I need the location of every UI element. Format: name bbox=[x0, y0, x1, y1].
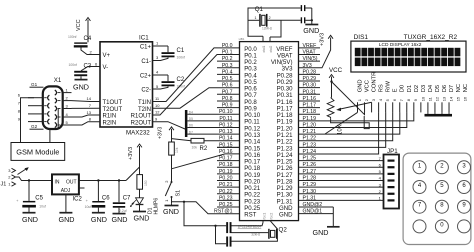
svg-text:2: 2 bbox=[379, 189, 382, 194]
svg-text:5: 5 bbox=[156, 84, 159, 89]
capacitor C4 bbox=[68, 35, 92, 47]
wire X1 pin3 to T2OUT pin 7 bbox=[72, 103, 101, 108]
svg-text:10uf: 10uf bbox=[39, 205, 46, 209]
op-amp IC1 MAX232 body bbox=[100, 35, 153, 137]
X1 right pins 1-5 bbox=[55, 87, 72, 127]
svg-text:C1+: C1+ bbox=[140, 45, 152, 51]
wire J1 pin2 to IC2 IN rail bbox=[16, 177, 53, 181]
wire GND pins to ground bbox=[299, 207, 334, 227]
wire V- pin 6 to C3 bbox=[81, 62, 100, 71]
svg-text:D1: D1 bbox=[407, 85, 413, 92]
wire VREF stub bbox=[299, 47, 321, 49]
svg-text:5: 5 bbox=[66, 120, 69, 125]
capacitor rtxc2 to GND bbox=[226, 237, 231, 247]
wire X1 pin4 to R1IN pin 13 bbox=[72, 110, 101, 117]
svg-text:D5: D5 bbox=[189, 117, 193, 121]
wire GSM to X1 pin6 bbox=[21, 98, 35, 143]
svg-text:GND: GND bbox=[112, 215, 128, 224]
svg-text:LPC2148FBD64: LPC2148FBD64 bbox=[238, 224, 261, 228]
connector J1 bbox=[1, 168, 16, 187]
svg-text:GND: GND bbox=[313, 228, 329, 237]
svg-text:LCD DISPLAY 16x2: LCD DISPLAY 16x2 bbox=[379, 42, 422, 48]
capacitor top (xtal1 to GND) bbox=[301, 5, 312, 11]
svg-text:+: + bbox=[16, 198, 19, 203]
wire rtxc2 to crystal bbox=[232, 221, 278, 242]
svg-text:1: 1 bbox=[164, 199, 169, 202]
svg-text:3: 3 bbox=[156, 55, 159, 60]
wire ground rail to crystal caps bbox=[184, 202, 226, 244]
wire P1.22 to LCD E bbox=[299, 112, 393, 140]
svg-text:T1OUT: T1OUT bbox=[103, 100, 123, 106]
svg-text:OUT: OUT bbox=[66, 179, 77, 185]
power symbol +3V3 near S1 bbox=[158, 127, 174, 142]
svg-text:1: 1 bbox=[255, 16, 257, 20]
ground below C3 bbox=[73, 76, 89, 91]
svg-text:+3V3: +3V3 bbox=[128, 147, 134, 160]
svg-text:0: 0 bbox=[440, 222, 444, 228]
svg-text:4: 4 bbox=[418, 183, 422, 189]
svg-text:GND: GND bbox=[73, 83, 89, 92]
svg-text:15: 15 bbox=[455, 96, 460, 101]
LED D1 HLMP6 bbox=[130, 198, 159, 215]
svg-text:rtxc1: rtxc1 bbox=[262, 212, 266, 219]
svg-text:10uf: 10uf bbox=[85, 205, 92, 209]
wire S1 junction to P0.16 bbox=[172, 154, 240, 169]
svg-text:1: 1 bbox=[8, 182, 11, 187]
LCD display DIS1 TUXGR_16X2_R2 bbox=[351, 34, 466, 72]
power symbol +3V3 above LED resistor bbox=[126, 144, 142, 181]
wires P1.25-P1.31 to JP1 bbox=[299, 161, 384, 201]
svg-text:C2-: C2- bbox=[141, 88, 151, 94]
svg-text:Q1: Q1 bbox=[255, 6, 264, 13]
capacitor C3 bbox=[69, 63, 92, 76]
wire X1 pin5 to R2IN pin 8 bbox=[72, 117, 101, 126]
svg-text:T1IN: T1IN bbox=[138, 100, 151, 106]
svg-text:R/W: R/W bbox=[386, 81, 392, 93]
wire VBAT stub bbox=[299, 54, 321, 56]
voltage regulator IC2 bbox=[52, 174, 85, 202]
wire S1 to RST bbox=[172, 201, 240, 214]
svg-text:10: 10 bbox=[420, 96, 425, 101]
svg-text:12: 12 bbox=[434, 96, 439, 101]
svg-text:4: 4 bbox=[66, 112, 69, 117]
wire stub P0.15 bbox=[217, 146, 240, 148]
microcontroller U1 LPC2148 body bbox=[238, 42, 299, 229]
ground below S1 bbox=[163, 203, 179, 216]
svg-text:E: E bbox=[393, 88, 399, 92]
svg-text:D6: D6 bbox=[442, 85, 448, 92]
wire R2OUT pin 9 bbox=[153, 116, 187, 129]
svg-text:C5: C5 bbox=[35, 195, 43, 201]
svg-text:C1-: C1- bbox=[141, 59, 151, 65]
svg-text:2: 2 bbox=[164, 180, 169, 183]
svg-text:5: 5 bbox=[379, 169, 382, 174]
svg-text:R1OUT: R1OUT bbox=[131, 114, 152, 120]
LCD pin labels and stubs bbox=[357, 72, 469, 113]
resistor R2 10k bbox=[191, 138, 208, 152]
svg-text:7: 7 bbox=[418, 203, 422, 209]
svg-text:3: 3 bbox=[8, 168, 11, 173]
wire C4 to V+ pin 2 bbox=[81, 48, 100, 55]
svg-text:2.2uf: 2.2uf bbox=[119, 209, 127, 213]
svg-text:GND: GND bbox=[91, 215, 107, 224]
svg-text:CONTR: CONTR bbox=[372, 72, 378, 93]
wire xtal1 loop bbox=[239, 8, 301, 41]
svg-text:P0.16: P0.16 bbox=[219, 149, 233, 155]
svg-text:8: 8 bbox=[440, 203, 444, 209]
svg-text:1: 1 bbox=[357, 98, 362, 101]
svg-text:3: 3 bbox=[462, 163, 466, 169]
svg-text:GND: GND bbox=[163, 207, 179, 216]
svg-text:9: 9 bbox=[155, 116, 158, 121]
svg-text:D7: D7 bbox=[449, 85, 455, 92]
svg-text:7: 7 bbox=[89, 103, 92, 108]
svg-text:NC: NC bbox=[456, 84, 462, 92]
svg-text:5: 5 bbox=[440, 183, 444, 189]
ground below LED D1 bbox=[133, 205, 149, 223]
svg-text:6: 6 bbox=[462, 183, 466, 189]
wire P1.21 to LCD D0 bbox=[299, 112, 400, 134]
switch S1 bbox=[164, 169, 182, 204]
svg-text:VCC: VCC bbox=[329, 67, 343, 74]
svg-text:3: 3 bbox=[371, 98, 376, 101]
svg-text:13: 13 bbox=[441, 96, 446, 101]
svg-text:11: 11 bbox=[155, 96, 160, 101]
svg-text:5: 5 bbox=[385, 98, 390, 101]
svg-text:X1: X1 bbox=[54, 77, 62, 84]
U1 xtal pins bbox=[262, 36, 273, 52]
svg-text:P0.14: P0.14 bbox=[219, 136, 233, 142]
svg-text:D6: D6 bbox=[189, 124, 193, 128]
svg-text:10k: 10k bbox=[175, 147, 179, 153]
svg-text:R2IN: R2IN bbox=[103, 120, 117, 126]
ground below C7 bbox=[112, 208, 128, 224]
svg-text:1: 1 bbox=[66, 87, 69, 92]
svg-text:S1: S1 bbox=[176, 190, 182, 197]
wire pot wiper to LCD CONTR bbox=[336, 102, 371, 111]
svg-text:GSM Module: GSM Module bbox=[16, 147, 59, 156]
svg-text:R1IN: R1IN bbox=[103, 114, 117, 120]
capacitor C2 bbox=[153, 70, 186, 89]
U1 right net labels bbox=[303, 43, 323, 215]
svg-text:IN: IN bbox=[55, 179, 60, 185]
svg-text:P0.1: P0.1 bbox=[222, 50, 233, 56]
svg-text:100nf: 100nf bbox=[68, 35, 77, 39]
svg-text:C2+: C2+ bbox=[140, 74, 152, 80]
wire VIN(5) stub bbox=[299, 60, 321, 62]
svg-text:150: 150 bbox=[144, 180, 148, 186]
ground below IC2 ADJ bbox=[59, 194, 75, 223]
svg-text:R2OUT: R2OUT bbox=[131, 120, 152, 126]
svg-text:100nf: 100nf bbox=[69, 63, 78, 67]
wire rtxc1 to crystal and cap bbox=[232, 221, 269, 233]
svg-text:32kHz: 32kHz bbox=[251, 233, 260, 237]
wire pot bottom to LCD RS bbox=[331, 116, 370, 129]
wire R1OUT pin 12 to P0.1 bbox=[153, 55, 240, 116]
svg-text:VCC: VCC bbox=[365, 80, 371, 92]
svg-text:P0.0: P0.0 bbox=[222, 43, 233, 49]
power symbol VCC for contrast pot bbox=[329, 67, 343, 98]
svg-text:10K: 10K bbox=[338, 124, 344, 135]
capacitor C7 bbox=[113, 179, 131, 213]
svg-text:3: 3 bbox=[379, 182, 382, 187]
svg-text:D0: D0 bbox=[400, 85, 406, 92]
wire T2IN pin 10 to P0.6 bbox=[153, 88, 240, 109]
svg-text:8: 8 bbox=[406, 98, 411, 101]
svg-text:GND: GND bbox=[134, 214, 150, 223]
svg-text:9: 9 bbox=[462, 203, 466, 209]
svg-text:4: 4 bbox=[378, 98, 383, 101]
svg-text:D3: D3 bbox=[421, 85, 427, 92]
wire P1.24 to LCD RS bbox=[299, 112, 379, 154]
svg-text:3: 3 bbox=[66, 103, 69, 108]
svg-text:11: 11 bbox=[427, 96, 432, 101]
U1 left pin names bbox=[244, 46, 261, 219]
svg-text:9: 9 bbox=[413, 98, 418, 101]
capacitor C5 bbox=[16, 179, 46, 208]
wire T1IN pin 11 to P0.0 bbox=[153, 48, 240, 102]
svg-text:ADJ: ADJ bbox=[61, 188, 71, 194]
svg-text:1: 1 bbox=[379, 196, 382, 201]
power symbol +3V3 at 3V3 pin bbox=[299, 33, 334, 68]
svg-text:D7: D7 bbox=[189, 130, 193, 134]
svg-text:2: 2 bbox=[8, 175, 11, 180]
svg-text:100nf: 100nf bbox=[177, 56, 186, 60]
capacitor C6 bbox=[85, 179, 111, 209]
svg-text:D4: D4 bbox=[428, 84, 434, 92]
svg-text:14: 14 bbox=[87, 96, 92, 101]
svg-text:6: 6 bbox=[392, 98, 397, 101]
wire X1 pin2 to T1OUT pin 14 bbox=[72, 96, 101, 101]
svg-text:DIS1: DIS1 bbox=[354, 34, 369, 41]
wire stubs P0.28-P0.31 P1.16-P1.18 bbox=[299, 74, 321, 114]
svg-text:+: + bbox=[86, 198, 89, 203]
capacitor bottom (xtal2 to GND) bbox=[301, 8, 313, 23]
svg-text:GND: GND bbox=[303, 26, 319, 35]
resistor R3 150 for LED bbox=[137, 167, 148, 198]
wire P1.20 to LCD D1 bbox=[299, 112, 407, 127]
wire +3V3 to resistor R2 bbox=[172, 139, 192, 141]
svg-text:G1: G1 bbox=[31, 82, 38, 87]
bus D4-D7 to P0.10-P0.13 bbox=[185, 110, 240, 137]
wire GSM to X1 shell bbox=[49, 129, 51, 143]
svg-text:R2: R2 bbox=[200, 146, 208, 152]
resistor R4 10k pull-up bbox=[169, 142, 179, 169]
svg-text:10: 10 bbox=[155, 103, 160, 108]
svg-text:2: 2 bbox=[364, 98, 369, 101]
bus D4-D7 at LCD bbox=[425, 112, 453, 116]
svg-text:1: 1 bbox=[156, 41, 159, 46]
X1 left pins 6-9 bbox=[18, 93, 50, 125]
svg-text:+3V3: +3V3 bbox=[158, 127, 164, 139]
svg-text:1: 1 bbox=[418, 163, 422, 169]
svg-text:6: 6 bbox=[95, 62, 98, 67]
svg-text:rtxc2: rtxc2 bbox=[269, 212, 273, 219]
svg-text:IC1: IC1 bbox=[139, 35, 149, 42]
svg-text:RST: RST bbox=[244, 212, 256, 219]
svg-text:P0.6: P0.6 bbox=[222, 83, 233, 89]
svg-text:8: 8 bbox=[89, 117, 92, 122]
svg-text:12: 12 bbox=[155, 110, 160, 115]
svg-text:G2: G2 bbox=[31, 124, 38, 129]
svg-text:T2OUT: T2OUT bbox=[103, 107, 123, 113]
svg-text:10k: 10k bbox=[192, 145, 198, 149]
wire LCD GND pin bbox=[325, 112, 358, 134]
keypad 12 buttons bbox=[403, 153, 471, 244]
connector X1 DB9 shell bbox=[43, 77, 63, 129]
wire IC2 OUT rail bbox=[79, 180, 126, 182]
node G2 bbox=[30, 124, 44, 129]
svg-text:4: 4 bbox=[156, 70, 159, 75]
svg-text:2: 2 bbox=[90, 50, 93, 55]
wire P1.19 to LCD D2 bbox=[299, 112, 414, 120]
svg-text:HB1: HB1 bbox=[239, 37, 245, 41]
svg-text:16: 16 bbox=[463, 96, 468, 101]
svg-text:D4: D4 bbox=[189, 110, 193, 114]
svg-text:xtal1: xtal1 bbox=[262, 46, 266, 53]
svg-text:+3V3: +3V3 bbox=[320, 33, 326, 46]
svg-text:4: 4 bbox=[379, 176, 382, 181]
svg-text:V+: V+ bbox=[103, 53, 111, 59]
crystal Q1 12MHz bbox=[255, 6, 273, 31]
ground for crystal caps bbox=[303, 20, 319, 35]
svg-text:6: 6 bbox=[18, 93, 21, 98]
ground bottom right bbox=[313, 227, 340, 237]
svg-text:D2: D2 bbox=[414, 85, 420, 92]
svg-text:VCC: VCC bbox=[76, 19, 82, 31]
U1 right pin names bbox=[271, 46, 293, 219]
U1 rtxc pins bbox=[262, 212, 273, 219]
svg-text:13: 13 bbox=[87, 110, 92, 115]
svg-text:GND: GND bbox=[358, 79, 364, 92]
svg-text:2: 2 bbox=[66, 95, 69, 100]
capacitor rtxc1 to GND bbox=[226, 222, 231, 233]
svg-text:C1: C1 bbox=[177, 48, 185, 54]
J1 switch lever arrow bbox=[18, 167, 29, 174]
svg-text:14: 14 bbox=[448, 96, 453, 101]
svg-text:C6: C6 bbox=[102, 195, 110, 201]
svg-text:GND: GND bbox=[22, 215, 38, 224]
svg-text:12MHz: 12MHz bbox=[262, 26, 273, 30]
power symbol VCC (top left) bbox=[76, 18, 90, 43]
svg-text:TUXGR_16X2_R2: TUXGR_16X2_R2 bbox=[404, 34, 458, 41]
ground below C5 bbox=[22, 208, 38, 224]
svg-text:D5: D5 bbox=[435, 85, 441, 92]
svg-text:J1: J1 bbox=[1, 181, 7, 187]
svg-text:C4: C4 bbox=[84, 36, 92, 42]
svg-text:C7: C7 bbox=[123, 195, 131, 201]
wire xtal2 loop bbox=[268, 20, 301, 37]
svg-text:NC: NC bbox=[463, 84, 469, 92]
wire VCC to LCD VCC pin bbox=[332, 82, 365, 115]
svg-text:T2IN: T2IN bbox=[138, 107, 151, 113]
svg-text:RS: RS bbox=[379, 84, 385, 92]
crystal Q2 32kHz bbox=[251, 226, 287, 238]
wire R2 to P0.14 bbox=[204, 140, 240, 142]
svg-text:HLMP6: HLMP6 bbox=[153, 198, 159, 215]
svg-text:7: 7 bbox=[399, 98, 404, 101]
svg-text:7: 7 bbox=[379, 156, 382, 161]
svg-text:MAX232: MAX232 bbox=[126, 129, 150, 136]
svg-text:Q2: Q2 bbox=[279, 226, 288, 233]
connector JP1 bbox=[379, 148, 399, 209]
potentiometer 10K zigzag bbox=[327, 98, 343, 135]
svg-text:V-: V- bbox=[103, 65, 109, 71]
capacitor C1 bbox=[153, 41, 186, 61]
wire P1.23 to LCD R/W bbox=[299, 112, 386, 147]
svg-text:2: 2 bbox=[269, 16, 271, 20]
svg-text:2: 2 bbox=[440, 163, 444, 169]
svg-text:GND: GND bbox=[279, 212, 293, 219]
X1 inside wire to pin 3 bbox=[57, 109, 59, 128]
svg-text:RST@1: RST@1 bbox=[214, 209, 233, 215]
svg-text:GND: GND bbox=[59, 215, 75, 224]
node G1 bbox=[30, 82, 44, 87]
GSM Module box bbox=[11, 143, 65, 161]
svg-text:xtal2: xtal2 bbox=[269, 46, 273, 53]
svg-text:IC2: IC2 bbox=[73, 196, 83, 202]
U1 left net labels and wire stubs bbox=[214, 43, 240, 215]
ground below C6 bbox=[91, 208, 107, 224]
svg-text:6: 6 bbox=[379, 162, 382, 167]
